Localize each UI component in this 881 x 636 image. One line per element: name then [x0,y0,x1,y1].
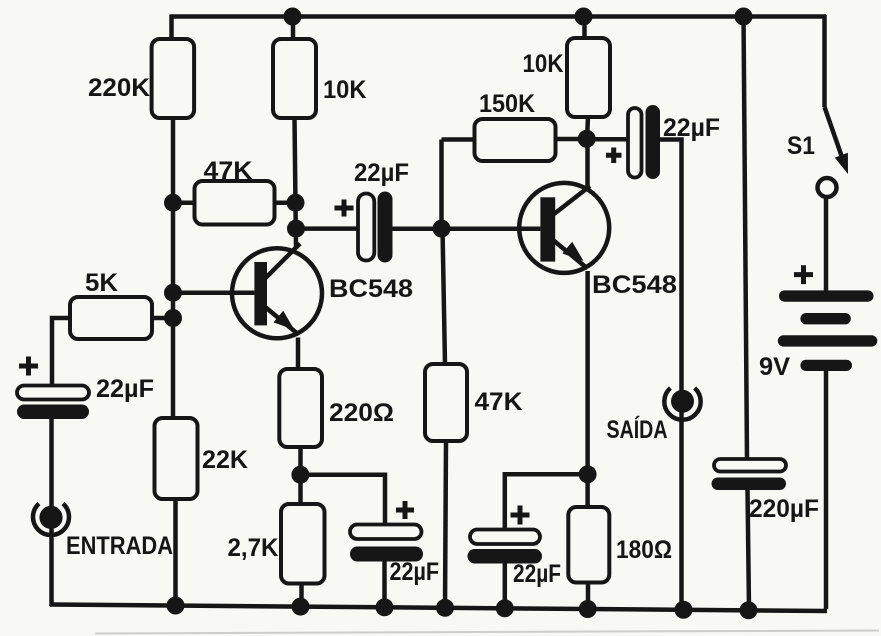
junction bottom rail R11 [579,600,597,618]
junction bottom rail C5 [496,599,514,617]
junction top rail at C6 [735,8,753,26]
resistor R5 22K [155,418,249,499]
wire C2 to Q2 base [393,226,541,231]
svg-text:220µF: 220µF [749,495,819,523]
svg-text:22µF: 22µF [96,375,154,403]
wire Q2 emitter column [585,271,590,507]
capacitor C5 22uF emitter bypass 2 [468,506,562,589]
wire branch to C5 [505,474,588,529]
resistor R8 150K [475,90,556,161]
resistor R1 220K [88,39,194,118]
wire C6 to bottom rail [748,490,750,608]
junction bottom rail C3 [376,598,394,616]
wire R9 junction to C4 [588,137,628,142]
junction R4 right [164,309,182,327]
wire R6 to R7 [298,447,303,504]
svg-text:150K: 150K [479,90,535,118]
wire R8 right link [555,137,587,142]
svg-text:BC548: BC548 [329,275,413,303]
svg-text:47K: 47K [204,157,253,185]
wire 220uF top column [744,15,748,460]
resistor R6 220ohm [279,369,394,447]
wire R10 bottom lead [445,441,446,608]
resistor R7 2,7K [228,504,325,584]
wire R3 left link [173,200,196,205]
capacitor C4 22uF output [606,105,720,179]
junction bottom rail R10 [436,599,454,617]
svg-text:22µF: 22µF [354,159,409,187]
wire Q2 collector [585,139,590,188]
transistor Q1 BC548 [232,244,413,339]
wire C5 to bottom rail [503,563,508,608]
resistor R10 47K [425,364,523,441]
resistor R4 5K [70,269,152,339]
capacitor C6 220uF [712,459,820,523]
wire R4 right link [152,316,173,321]
wire R4 left to C1 [52,318,70,386]
junction bottom rail R5 [167,597,185,615]
wire C4 to SAIDA and bottom rail [660,140,682,609]
wire R1 bottom column [171,118,176,419]
connector ENTRADA [33,504,173,560]
wire R2 bottom to Q1 collector [295,118,297,249]
wire R8 left link [442,137,477,142]
svg-text:22µF: 22µF [513,560,561,588]
junction top rail at R2 [284,8,302,26]
junction bottom rail SAIDA [675,601,693,619]
svg-text:180Ω: 180Ω [616,536,672,564]
junction R3 left [164,194,182,212]
resistor R11 180ohm [568,507,672,583]
resistor R9 10K [523,38,611,117]
battery B1 9V [759,265,877,381]
capacitor C1 22uF input [17,357,154,420]
wire top lead R2 [291,15,296,39]
wire switch to battery [824,197,829,291]
wire Q1 emitter to R6 [296,338,301,370]
svg-text:220Ω: 220Ω [329,399,394,427]
scan artifact line [95,631,879,634]
wire C3 to bottom rail [382,562,387,609]
resistor R3 47K [195,157,275,225]
svg-text:5K: 5K [85,269,118,297]
svg-text:220K: 220K [88,74,150,102]
capacitor C3 22uF emitter bypass [350,501,439,586]
wire top-left lead to R1 [169,15,174,40]
junction top rail at R9 [575,8,593,26]
svg-text:10K: 10K [323,76,367,104]
svg-text:22K: 22K [202,446,248,474]
junction bottom rail R7 [292,598,310,616]
svg-text:BC548: BC548 [592,271,677,299]
junction bottom rail C6 [740,601,758,619]
junction Q2 emitter node [579,465,597,483]
wire top-right drop to switch [822,15,827,107]
junction R6 R7 node [291,466,309,484]
wire column to R10 [443,229,446,364]
junction R9 output node [578,130,596,148]
wire Q1 base [175,290,254,295]
connector SAIDA [607,388,701,444]
wire top rail [170,14,827,19]
junction Q1 base column [164,284,182,302]
wire R5 bottom lead [173,499,178,608]
wire C1 to bottom rail [49,419,54,606]
wire branch to C3 [300,475,385,525]
wire bottom rail [50,605,827,612]
svg-text:10K: 10K [523,50,564,78]
svg-text:22µF: 22µF [390,558,440,586]
svg-text:2,7K: 2,7K [228,534,279,562]
wire R7 bottom lead [299,584,304,609]
wire Q1 collector to C2 [296,226,358,231]
transistor Q2 BC548 [519,183,677,299]
svg-text:ENTRADA: ENTRADA [66,532,173,560]
svg-text:9V: 9V [759,353,790,381]
wire R11 bottom lead [586,583,591,609]
switch S1 [787,107,848,197]
wire R3 right link [274,200,296,205]
junction Q1 collector node [287,220,305,238]
junction Q2 base node [433,220,451,238]
wire top lead R9 [582,15,587,38]
capacitor C2 22uF coupling [335,159,410,263]
wire battery to bottom rail [824,371,829,610]
wire R9 bottom lead [587,117,588,139]
junction R3 right [287,194,305,212]
svg-text:47K: 47K [475,388,523,416]
svg-text:SAÍDA: SAÍDA [607,415,668,444]
resistor R2 10K [273,39,367,118]
svg-text:S1: S1 [787,132,815,160]
wire 150K left column [439,140,444,229]
